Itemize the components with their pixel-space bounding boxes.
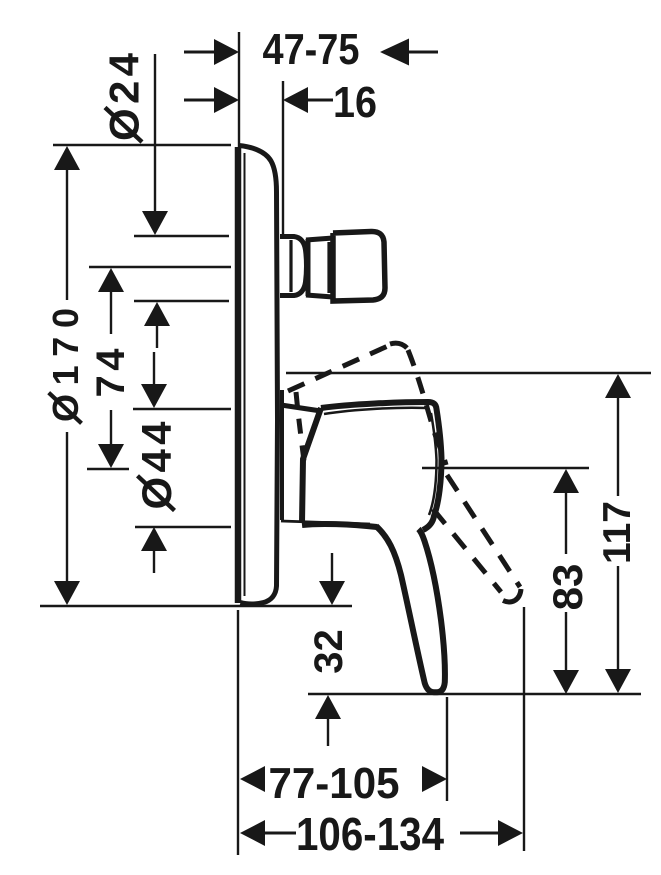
extension line pivot right y=468 (422, 467, 589, 469)
arrow 47-75 left (214, 39, 239, 65)
dashed lever down lower edge (433, 509, 501, 592)
arrow 77-105 right (422, 766, 447, 792)
arrow D44 bottom (141, 527, 167, 551)
arrow D24 top (142, 211, 168, 235)
svg-text:47-75: 47-75 (263, 25, 360, 74)
dimension line 74 (110, 291, 112, 334)
dimension 16 tails (184, 99, 216, 102)
dimension line D44 (153, 352, 155, 385)
arrow 16 left (214, 87, 239, 113)
arrow 32 top (319, 581, 345, 605)
svg-text:117: 117 (596, 501, 639, 564)
arrow 83 bottom (553, 670, 579, 694)
extension line spout face x=283 (282, 81, 284, 236)
dashed lever down upper edge (447, 475, 520, 587)
handle body outline (321, 402, 442, 530)
dimension line 32 (331, 553, 333, 582)
spout ring top edge (306, 238, 333, 240)
dashed lever down tip cap (503, 589, 521, 602)
extension line pivot left y=469 (87, 468, 129, 470)
arrow 74 bottom (98, 444, 124, 468)
spout cap inner line (289, 240, 292, 292)
dashed lever up lower edge (296, 392, 304, 461)
extension line plate top y=145 (53, 144, 231, 146)
extension line lever tip bottom x=447 (446, 697, 448, 801)
extension line dashed tip x=524 (523, 607, 525, 851)
arrow 16 right (283, 87, 308, 113)
arrow D24 bottom (144, 302, 170, 326)
dimension line 83 (565, 492, 567, 554)
neck bottom line (281, 521, 370, 524)
extension line body bottom y=527 (135, 526, 231, 528)
escutcheon plate inner line (244, 153, 246, 596)
arrow D170 top (54, 146, 80, 170)
dashed lever up right edge (408, 350, 446, 465)
handle body bottom edge (302, 524, 377, 527)
dashed lever up tip cap (390, 343, 407, 348)
extension line plate plane bottom x=238 (237, 610, 239, 855)
dimension 106-134 tails (264, 832, 296, 835)
dimension line 117 (617, 397, 619, 496)
extension line spout axis y=267 (89, 266, 231, 268)
dimension line D24 (154, 54, 156, 214)
escutcheon plate face contour (239, 146, 278, 605)
arrow 83 top (553, 469, 579, 493)
extension line spout bottom y=301 (134, 300, 229, 302)
arrow 117 bottom (605, 669, 631, 693)
extension line wall plane x=239 (238, 32, 240, 147)
sleeve edge behind handle (280, 390, 284, 520)
svg-text:106-134: 106-134 (296, 808, 444, 860)
neck top edge (281, 405, 321, 411)
handle body inner contour (324, 408, 437, 515)
extension line plate bottom y=606 (40, 605, 352, 607)
svg-text:77-105: 77-105 (269, 759, 400, 808)
arrow 106-134 left (240, 820, 265, 846)
svg-text:32: 32 (307, 629, 351, 674)
arrow D44 top (141, 384, 167, 408)
arrow D170 bottom (54, 581, 80, 605)
dimension line D170 (66, 169, 68, 300)
spout ring bottom edge (306, 295, 333, 297)
svg-text:83: 83 (544, 564, 591, 611)
lever (376, 526, 445, 692)
extension line lever tip y=694 (308, 693, 641, 695)
dashed lever up outline top edge (288, 345, 390, 391)
arrow 117 top (605, 374, 631, 398)
arrow 106-134 right (498, 820, 523, 846)
arrow 32 bottom (315, 695, 341, 719)
arrow 77-105 left (240, 766, 265, 792)
spout cap (280, 237, 307, 296)
spout ring left edge (306, 239, 311, 296)
escutcheon plate left edge (235, 147, 242, 603)
spout ring inner line (327, 242, 330, 293)
arrow 74 top (98, 268, 124, 292)
spout body (333, 231, 385, 301)
svg-text:16: 16 (333, 78, 377, 127)
extension line spout top y=236 (134, 235, 229, 237)
handle body left edge (302, 408, 321, 523)
arrow 47-75 right (380, 39, 409, 66)
dimension 47-75 tails (184, 51, 216, 54)
extension line body top y=409 (133, 408, 231, 410)
extension line handle up tip y=373 (286, 372, 651, 374)
